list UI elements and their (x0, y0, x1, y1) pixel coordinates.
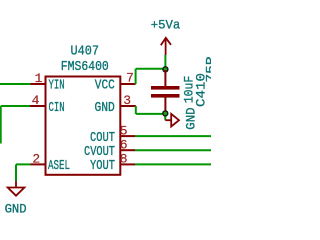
wire CIN net vertical (0, 106, 2, 144)
ground symbol lower left (8, 181, 25, 196)
svg-text:CIN: CIN (49, 101, 65, 116)
wire GND pin to node (136, 113, 166, 115)
capacitor C410 top plate (151, 86, 180, 90)
wire CVOUT net (135, 149, 211, 151)
node junction bottom at C410/GND (162, 110, 168, 116)
wire VCC to +5Va node (136, 68, 166, 70)
svg-text:2: 2 (32, 152, 40, 167)
pin 7 VCC stub (121, 83, 136, 85)
svg-text:GND: GND (95, 101, 115, 116)
svg-text:U407: U407 (71, 44, 100, 59)
pin 6 CVOUT stub (121, 149, 136, 151)
capacitor C410 top lead (164, 70, 166, 86)
wire YOUT net (135, 163, 211, 165)
svg-text:1: 1 (35, 71, 43, 86)
svg-text:+5Va: +5Va (151, 18, 181, 33)
svg-text:GND: GND (5, 202, 27, 217)
wire +5Va stem (164, 55, 166, 69)
pin 4 CIN stub (30, 105, 46, 107)
pin 8 YOUT stub (121, 163, 136, 165)
wire VCC up (135, 69, 137, 84)
svg-text:YOUT: YOUT (90, 159, 115, 174)
svg-text:FMS6400: FMS6400 (61, 60, 109, 75)
wire YIN net (0, 83, 31, 85)
wire ASEL net vertical to ground (15, 164, 17, 181)
svg-text:ASEL: ASEL (48, 159, 70, 174)
svg-text:GND: GND (184, 107, 199, 129)
wire node to ground symbol (164, 114, 166, 120)
svg-text:75R: 75R (204, 56, 211, 82)
capacitor C410 bottom lead (164, 98, 166, 114)
wire GND pin down (135, 106, 137, 114)
svg-text:6: 6 (120, 137, 128, 152)
svg-text:COUT: COUT (90, 131, 115, 146)
IC U407 FMS6400 body (46, 77, 121, 175)
pin 1 YIN stub (31, 83, 46, 85)
wire COUT net (135, 135, 211, 137)
svg-text:3: 3 (123, 93, 131, 108)
pin 3 GND stub (121, 105, 136, 107)
node junction top at VCC/C410 (162, 66, 168, 72)
svg-text:4: 4 (32, 93, 40, 108)
pin 2 ASEL stub (31, 163, 46, 165)
ground symbol right (rotated) (165, 114, 179, 127)
wire CIN net horizontal (1, 105, 30, 107)
capacitor C410 bottom plate (151, 94, 180, 98)
wire ASEL net horizontal (16, 163, 31, 165)
pin 5 COUT stub (121, 135, 136, 137)
svg-text:YIN: YIN (49, 79, 65, 94)
svg-text:5: 5 (120, 123, 128, 138)
svg-text:VCC: VCC (95, 79, 115, 94)
svg-text:8: 8 (120, 151, 128, 166)
svg-text:CVOUT: CVOUT (84, 145, 115, 160)
svg-text:7: 7 (126, 71, 134, 86)
power +5Va arrow (161, 38, 171, 55)
